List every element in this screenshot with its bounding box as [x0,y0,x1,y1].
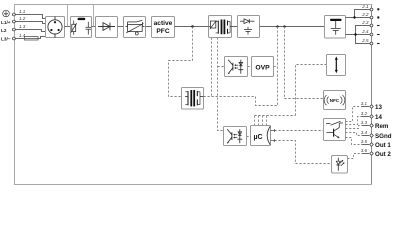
active PFC block [152,17,175,38]
stub wire 3.2 [362,116,370,118]
relay / signal output block [324,119,346,141]
wire transformer-output rectifier [232,26,238,28]
terminal 2.3 [370,24,373,27]
terminal 2.4 [370,33,373,36]
junction dot NFC feed [283,25,285,27]
svg-text:14: 14 [375,114,382,121]
terminal diamond 3.3 [370,124,374,128]
aux transformer block T2 [182,88,204,110]
dashed net: opto1 feed [218,66,225,68]
wire PFC-transformer [175,26,209,28]
svg-text:PFC: PFC [156,28,169,35]
dashed net: uC-relay link [275,130,324,132]
svg-text:1.2: 1.2 [19,16,26,21]
input filter block [71,17,92,38]
terminal 2.5 [370,42,373,45]
opto-coupler U2 (feedback, upper) [225,57,248,77]
terminal 2.2 [370,16,373,19]
output rectifier block [238,16,260,38]
dashed net: OVP sense drop [277,27,279,106]
dashed net: aux transformer feed from rail [169,27,193,97]
wire box1-box2 [65,26,71,28]
svg-text:L3/−: L3/− [1,36,11,41]
terminal 2.1 [370,8,373,11]
svg-text:2.2: 2.2 [361,12,369,17]
svg-text:3.5: 3.5 [361,139,368,144]
inrush limiter block (NTC + bypass) [124,17,146,38]
terminal diamond 3.2 [370,115,374,119]
LED indicator block [332,156,348,174]
stub wire 3.4 [362,135,370,137]
terminal 1.1 [13,13,16,16]
svg-text:µC: µC [253,134,262,141]
svg-text:2.5: 2.5 [361,38,369,43]
svg-text:OVP: OVP [255,64,270,71]
main transformer block T1 [209,16,232,38]
terminal diamond 3.4 [370,134,374,138]
stub wire 3.3 [362,125,370,127]
dashed net: transformer drive drop 1 [211,38,213,97]
svg-text:1.3: 1.3 [19,24,26,29]
dashed net: opto1-OVP link [248,66,252,68]
microcontroller block uC [251,126,275,146]
svg-text:3.6: 3.6 [361,148,368,153]
polarity + mark 2.1 [377,8,379,10]
terminal 1.3 [13,28,16,31]
svg-text:1.1: 1.1 [19,9,26,14]
svg-text:3.1: 3.1 [361,101,368,106]
wire box3-box4 [118,26,124,28]
dashed wire to terminal 13 [346,107,362,122]
opto-coupler U3 (signal, lower) [224,127,247,146]
svg-text:2.1: 2.1 [361,4,369,9]
dashed wire to terminal Rem [346,126,362,129]
stub wire 3.5 [362,144,370,146]
dashed net: uC riser 1 [254,116,256,126]
stub wire 3.1 [362,106,370,108]
wire 1.2 [14,22,46,24]
wire 1.1 (PE) [14,15,46,19]
wire rectifier-output filter [260,26,325,28]
output filter block [325,16,346,39]
fuse F1 on wire 1.4 [25,37,39,41]
polarity + mark 2.2 [377,16,379,18]
svg-text:L2: L2 [1,28,7,33]
earth symbol (circled PE) [3,10,10,17]
svg-text:Out 2: Out 2 [375,151,391,158]
dashed net: uC bus bottom [255,115,296,117]
dashed wire to terminal Out 1 [346,138,362,145]
svg-text:13: 13 [375,104,382,111]
rectifier diode block [96,17,118,38]
terminal 1.2 [13,20,16,23]
svg-text:NFC: NFC [330,98,340,103]
wire box4-box5 [146,26,152,28]
NFC block [324,91,346,110]
dashed net: OVP link [274,66,278,68]
dashed net: current monitor link [296,65,327,116]
svg-text:3.4: 3.4 [361,130,368,135]
wire 1.3 [14,30,46,32]
current monitor block (arrow) [327,55,346,76]
junction dot OVP feed [276,25,278,27]
svg-text:3.3: 3.3 [361,120,368,125]
polarity - mark 2.4 [377,34,380,36]
enclosure outline [15,5,372,185]
svg-text:SGnd: SGnd [375,133,392,140]
wire box2-box3 [92,26,96,28]
dashed net: uC riser 2 [258,116,260,126]
svg-text:Out 1: Out 1 [375,142,391,149]
dashed net: uC riser 4 [266,116,268,126]
OVP block [252,57,274,77]
dashed wire to terminal Out 2 [348,154,362,159]
dashed wire to terminal SGnd [346,133,362,136]
terminal diamond 3.6 [370,152,374,156]
terminal diamond 3.5 [370,143,374,147]
dashed net: uC riser 3 [262,116,264,126]
svg-text:Rem: Rem [375,123,389,130]
wire -output to 2.4 [346,34,372,36]
wire 2.1 branch [355,10,372,18]
dashed net: uC-LED link [275,141,332,164]
svg-text:2.3: 2.3 [361,20,369,25]
stub wire 3.6 [362,153,370,155]
terminal diamond 3.1 [370,105,374,109]
chassis link 2 [93,5,95,27]
svg-text:L1/+: L1/+ [1,20,11,25]
wire 2.3/2.5 branch [356,26,372,44]
wire +output to 2.2 [346,17,372,19]
terminal 1.4 [13,37,16,40]
dashed net: NFC feed [285,27,324,99]
dashed net: transformer drive drop 2 and opto2 feed [218,38,224,131]
svg-text:3.2: 3.2 [361,111,368,116]
dashed net: aux output line [204,97,278,106]
polarity - mark 2.5 [377,43,380,45]
svg-text:2.4: 2.4 [361,29,369,34]
chassis link 1 [67,5,69,27]
junction dot minus bracket [354,33,356,35]
junction dot plus bracket [353,16,355,18]
dashed net: opto2-uC link [247,136,251,138]
svg-text:active: active [154,20,173,27]
dashed wire to terminal 14 [346,117,362,125]
polarity - mark 2.3 [377,25,380,27]
svg-text:1.4: 1.4 [19,33,26,38]
wire 1.4 [14,37,46,39]
right edge terminal bus [371,5,373,185]
junction dot aux feed [191,25,193,27]
input connector block U1 [46,17,65,38]
